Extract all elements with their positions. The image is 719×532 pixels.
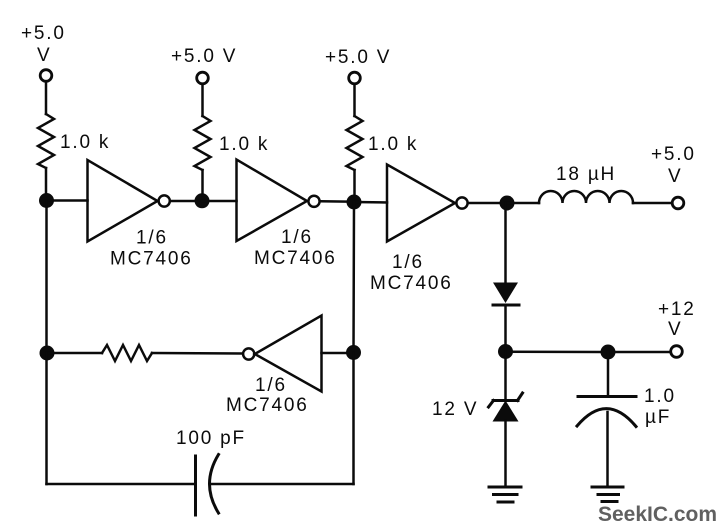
output bubble U4 (243, 348, 254, 359)
svg-text:V: V (668, 166, 682, 187)
svg-text:+5.0 V: +5.0 V (171, 46, 237, 67)
wire U3 output to node D (468, 202, 500, 205)
svg-text:1/6: 1/6 (392, 252, 424, 273)
wire node D to inductor L1 (507, 202, 539, 205)
label 12 V (D2) (432, 399, 478, 420)
resistor R1 (38, 114, 54, 168)
op-amp U3 inverter 1/6 MC7406 (387, 165, 455, 242)
wire node B to U2 input (202, 200, 237, 203)
zener diode D2 12 V (489, 393, 523, 422)
terminal T5 (+12 V output) (671, 346, 683, 358)
svg-text:µF: µF (645, 407, 671, 428)
resistor R2 (195, 116, 211, 170)
label 1/6 MC7406 (U1) (110, 228, 193, 270)
resistor R4 (feedback) (102, 345, 152, 361)
ground G2 (below C2) (592, 487, 623, 502)
svg-text:1/6: 1/6 (281, 227, 313, 248)
wire bottom right (C1 to mid rail) (212, 483, 354, 486)
wire mid rail node H down to bottom wire (352, 353, 355, 485)
resistor R3 (347, 116, 363, 170)
wire node F to terminal T5 (608, 351, 670, 354)
wire R4 to U4 output bubble (152, 352, 242, 355)
wire node G to R4 (47, 352, 102, 355)
wire node C down to node G (mid rail) (352, 202, 355, 353)
svg-text:MC7406: MC7406 (254, 248, 337, 269)
wire R3 to node C (353, 170, 356, 196)
svg-text:+5.0: +5.0 (651, 144, 696, 165)
op-amp U4 inverter 1/6 MC7406 (feedback, points left) (255, 316, 322, 392)
node D (U3 out junction) (500, 196, 515, 211)
wire left rail (node A down to node G) (45, 201, 48, 354)
svg-text:1/6: 1/6 (255, 375, 287, 396)
svg-text:1.0 k: 1.0 k (219, 134, 269, 155)
wire node E to zener D2 (504, 352, 507, 401)
svg-text:1.0 k: 1.0 k (60, 132, 110, 153)
wire L1 to terminal T4 (633, 202, 671, 205)
label +5.0 V (T1) (21, 23, 66, 66)
ground G1 (below zener D2) (489, 487, 521, 502)
label +5.0 V (T3) (325, 47, 391, 68)
wire R1 to node A (45, 168, 48, 196)
label 1.0 k (R2) (219, 134, 269, 155)
svg-text:V: V (668, 319, 682, 340)
capacitor C2 1.0 uF (577, 397, 636, 427)
op-amp U1 inverter 1/6 MC7406 (88, 160, 158, 242)
output bubble U3 (456, 197, 467, 208)
node F (C2 top junction) (601, 345, 616, 360)
label 1.0 k (R1) (60, 132, 110, 153)
label 100 pF (C1) (176, 428, 246, 449)
wire U2 output to node C (320, 200, 347, 203)
output bubble U1 (159, 195, 170, 206)
svg-text:MC7406: MC7406 (110, 249, 193, 270)
svg-text:MC7406: MC7406 (370, 273, 453, 294)
terminal T2 (+5.0 V supply, middle) (197, 72, 209, 84)
label +5.0 V (T4) (651, 144, 696, 187)
svg-text:1.0 k: 1.0 k (368, 134, 418, 155)
node G (left rail / feedback junction) (40, 346, 55, 361)
svg-text:SeekIC.com: SeekIC.com (598, 503, 717, 526)
svg-text:+5.0 V: +5.0 V (325, 47, 391, 68)
label 1/6 MC7406 (U2) (254, 227, 337, 269)
svg-text:100 pF: 100 pF (176, 428, 246, 449)
wire T3 to R3 (353, 85, 356, 116)
node H (mid rail / feedback junction) (346, 345, 361, 360)
label 1.0 uF (C2) (644, 386, 676, 428)
wire T2 to R2 (201, 85, 204, 116)
wire left rail node G down to bottom wire (45, 353, 48, 484)
svg-text:12 V: 12 V (432, 399, 478, 420)
terminal T3 (+5.0 V supply, right) (349, 72, 361, 84)
label +12 V (T5) (658, 299, 696, 340)
wire node C to U3 input (354, 201, 387, 204)
wire node F down to capacitor C2 (607, 352, 610, 395)
op-amp U2 inverter 1/6 MC7406 (237, 160, 308, 242)
svg-text:18 µH: 18 µH (556, 164, 616, 185)
wire C2 to ground G2 (606, 412, 609, 486)
svg-text:1.0: 1.0 (644, 386, 676, 407)
diode D1 (493, 283, 519, 306)
wire T1 to R1 (45, 83, 48, 115)
svg-text:+5.0: +5.0 (21, 23, 66, 44)
wire bottom left (node G to C1) (47, 483, 195, 486)
svg-text:MC7406: MC7406 (226, 395, 309, 416)
svg-text:V: V (37, 45, 51, 66)
wire D2 to ground G1 (504, 421, 507, 486)
wire R2 to node B (201, 170, 204, 196)
label 1.0 k (R3) (368, 134, 418, 155)
label 1/6 MC7406 (U3) (370, 252, 453, 294)
label 18 uH (L1) (556, 164, 616, 185)
label +5.0 V (T2) (171, 46, 237, 67)
wire D1 to node E (504, 306, 507, 348)
label 1/6 MC7406 (U4) (226, 375, 309, 416)
svg-text:+12: +12 (658, 299, 696, 320)
wire node E to node F (506, 350, 601, 353)
wire node D down to diode D1 (504, 203, 507, 283)
wire U4 input to node H (322, 352, 348, 355)
node E (D1 cathode junction) (498, 344, 513, 359)
svg-text:1/6: 1/6 (136, 228, 168, 249)
terminal T4 (+5.0 V output) (672, 197, 684, 209)
node C (U2 out / U3 in junction) (347, 195, 362, 210)
capacitor C1 100 pF (196, 455, 219, 516)
node A (junction left rail / U1 input) (39, 193, 54, 208)
wire node A to U1 input (47, 199, 88, 202)
output bubble U2 (308, 196, 319, 207)
wire U1 output to node B (171, 200, 197, 203)
terminal T1 (+5.0 V supply, left) (40, 70, 52, 82)
inductor L1 18 uH (539, 191, 633, 203)
node B (U1 out / U2 in junction) (195, 193, 210, 208)
